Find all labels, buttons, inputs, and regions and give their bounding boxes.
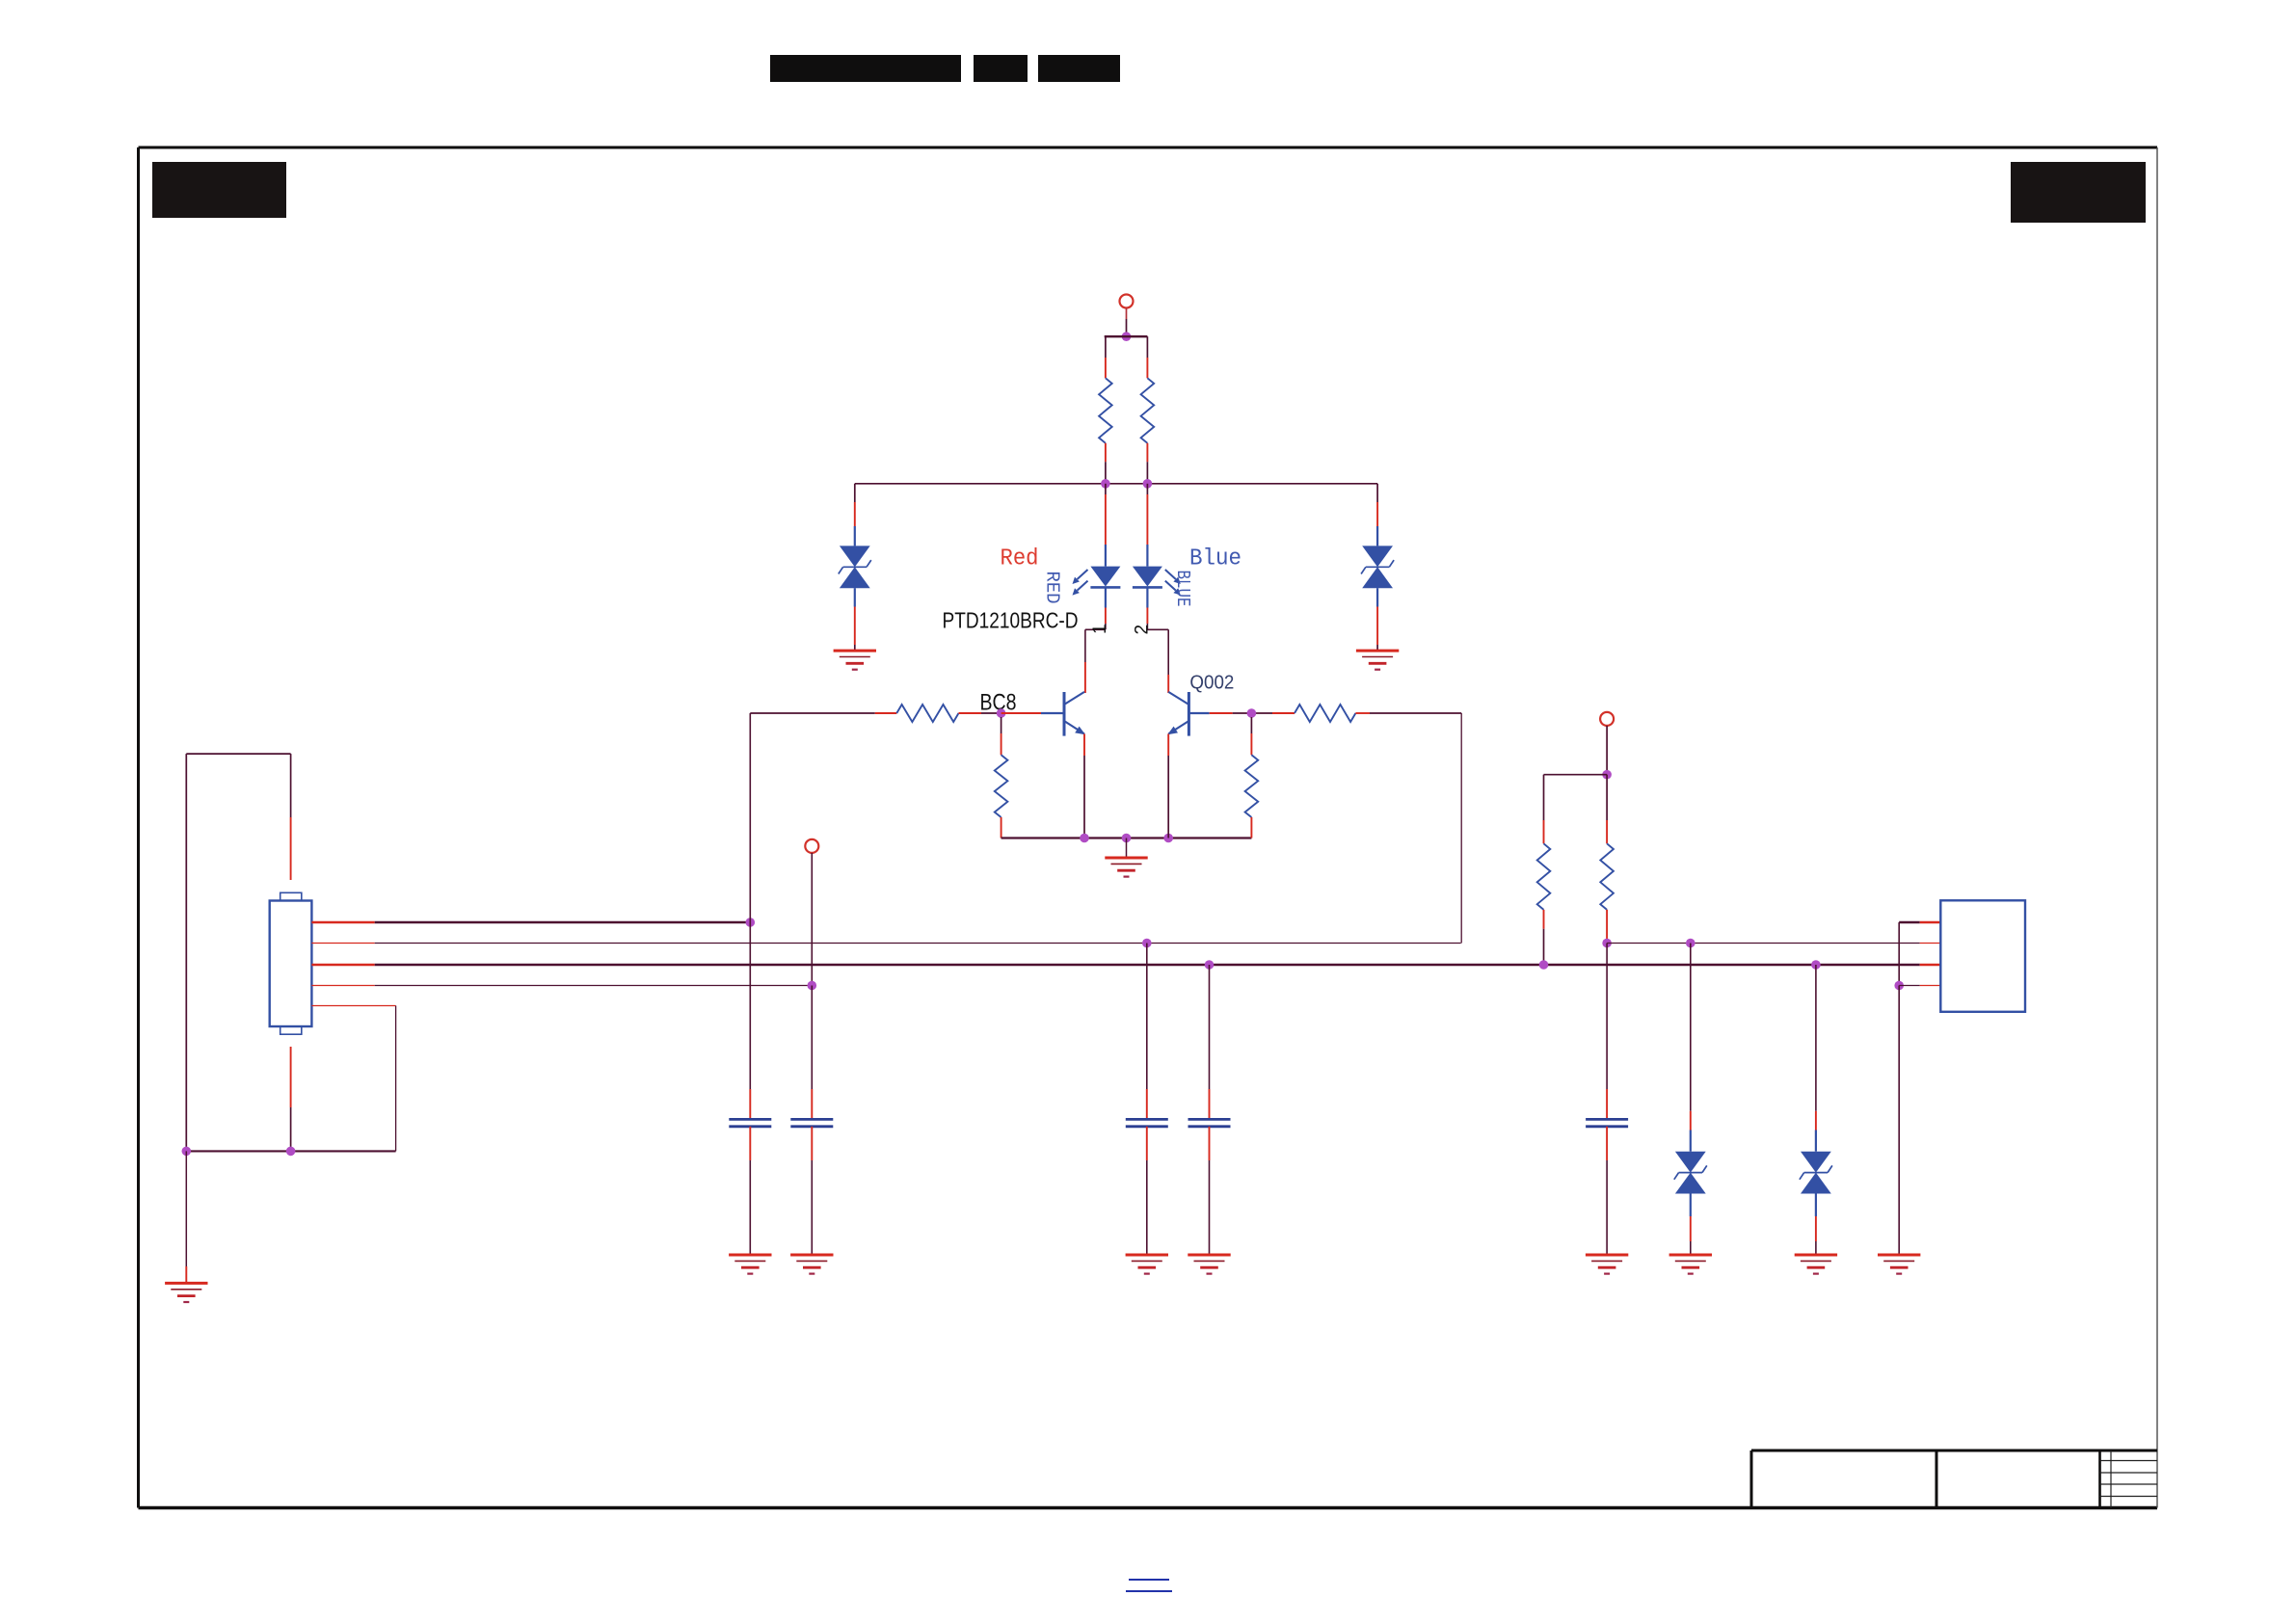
ground C3 — [1126, 1255, 1168, 1274]
wire D3 bottom lead — [1690, 1194, 1692, 1256]
node W1 end — [746, 918, 756, 927]
resistor R2 — [1141, 378, 1155, 443]
sheet frame border — [139, 147, 2158, 1508]
label BC8 — [980, 690, 1017, 716]
title block — [1751, 1450, 2157, 1508]
wire Q002 emitter lead — [1167, 734, 1169, 838]
wire CN1 bottom pin — [290, 1047, 292, 1151]
ground CN2 — [1878, 1255, 1920, 1274]
wire W4 — [311, 985, 812, 987]
wire top split bar — [1106, 335, 1148, 337]
wire R3 to node — [959, 712, 1001, 714]
wire C4 top lead — [1209, 965, 1211, 1119]
node Q2 emitter — [1163, 834, 1173, 843]
wire CN1 gnd stem — [185, 1151, 187, 1283]
wire LED1 cathode lead — [1085, 587, 1106, 693]
capacitor C1 — [729, 1119, 771, 1126]
node R8 W2b — [1602, 939, 1612, 948]
ground C1 — [729, 1255, 771, 1274]
node R2 rail junction — [1143, 479, 1153, 489]
wire R7 bottom lead — [1543, 910, 1545, 965]
wire R4 bottom lead — [1001, 817, 1002, 838]
ground CN1 — [165, 1283, 207, 1302]
redaction box top-left — [152, 162, 286, 218]
node W2b D3 — [1686, 939, 1695, 948]
ground C5 — [1586, 1255, 1628, 1274]
node W3 C4 — [1205, 960, 1215, 970]
wire D1 bottom lead — [854, 588, 856, 651]
wire node to Q1 base — [1001, 712, 1064, 714]
node P3 split — [1602, 770, 1612, 780]
node junction top — [1122, 332, 1132, 341]
pin label 1 — [1090, 624, 1110, 634]
wire C3 top lead — [1146, 944, 1148, 1120]
wire D3 top lead — [1690, 944, 1692, 1152]
wire R4 top lead — [1001, 717, 1002, 755]
redaction bar 3 (title) — [1038, 55, 1120, 82]
label Blue — [1189, 546, 1241, 572]
svg-text:BLUE: BLUE — [1172, 571, 1193, 607]
ground emitter rail — [1105, 858, 1147, 877]
power terminal P1 — [1120, 295, 1134, 308]
resistor R5 — [1245, 755, 1259, 817]
wire C4 bottom lead — [1209, 1127, 1211, 1255]
wire CN1 loop — [186, 754, 290, 1151]
wire C2 top lead — [811, 986, 813, 1120]
terminal P2 — [805, 839, 818, 853]
node R5 top — [1247, 708, 1257, 718]
label Q002 — [1189, 673, 1234, 694]
svg-text:RED: RED — [1042, 572, 1063, 604]
resistor R6 (Q002 base) — [1295, 705, 1355, 722]
node W2 C3 — [1142, 939, 1152, 948]
node Q1 emitter — [1080, 834, 1089, 843]
resistor R3 (BC8 base) — [896, 705, 958, 722]
node W4 P2 — [808, 981, 817, 991]
node W4 CN2 — [1894, 981, 1904, 991]
label BLUE (rotated) — [1172, 571, 1193, 607]
wire emitter rail — [1001, 837, 1252, 838]
node W3 D4 — [1811, 960, 1821, 970]
wire P3 stem — [1606, 726, 1608, 775]
svg-text:Q002: Q002 — [1189, 673, 1234, 694]
tvs diode D2 — [1361, 545, 1394, 588]
wire Q1 emitter lead — [1083, 734, 1085, 838]
wire R2 bottom lead — [1146, 443, 1148, 484]
label Red — [1001, 546, 1039, 572]
resistor R4 — [995, 755, 1008, 817]
wire W2b — [1607, 943, 1940, 945]
wire Q002 base — [1188, 712, 1272, 714]
ground C4 — [1188, 1255, 1230, 1274]
wire C1 top lead — [749, 922, 751, 1119]
wire W2 — [311, 943, 1460, 945]
wire split bar R7 — [1544, 774, 1608, 776]
wire CN1 top pin — [290, 754, 292, 880]
svg-text:1: 1 — [1090, 624, 1110, 634]
wire R7 top lead — [1543, 775, 1545, 844]
label RED (rotated) — [1042, 572, 1063, 604]
resistor R1 — [1099, 378, 1112, 443]
wire gnd stem — [1126, 838, 1128, 859]
wire C5 top lead — [1606, 944, 1608, 1120]
svg-text:Blue: Blue — [1189, 546, 1241, 572]
wire D1 top lead — [854, 484, 856, 546]
wire CN2 pin1 — [1899, 922, 1940, 986]
wire LED2 anode lead — [1146, 484, 1148, 567]
wire R8 top lead — [1606, 775, 1608, 844]
wire P1 stem — [1126, 308, 1128, 337]
led LED1 (Red) — [1073, 567, 1121, 596]
transistor Q002 — [1167, 692, 1188, 736]
capacitor C5 — [1586, 1119, 1628, 1126]
wire D2 bottom lead — [1376, 588, 1378, 651]
wire gnd rail CN1 — [186, 1150, 395, 1152]
wire R1 top lead — [1105, 336, 1107, 378]
wire D4 top lead — [1815, 965, 1817, 1152]
wire D4 bottom lead — [1815, 1194, 1817, 1256]
wire R8 bottom lead — [1606, 910, 1608, 944]
pin label 2 — [1133, 625, 1153, 635]
connector CN2 — [1940, 900, 2025, 1012]
footer page mark — [1126, 1580, 1172, 1591]
wire W5 — [311, 1006, 395, 1152]
node rail CN1 pin — [286, 1147, 296, 1157]
wire TVS rail — [855, 483, 1377, 485]
resistor R8 — [1600, 843, 1614, 910]
svg-text:Red: Red — [1001, 546, 1039, 572]
wire W3 — [311, 964, 1940, 966]
wire R6 left lead — [1272, 712, 1295, 714]
wire C2 bottom lead — [811, 1127, 813, 1255]
wire D2 top lead — [1376, 484, 1378, 546]
wire LED2 cathode lead — [1147, 587, 1168, 693]
wire C3 bottom lead — [1146, 1127, 1148, 1255]
node rail left — [182, 1147, 192, 1157]
tvs diode D4 — [1800, 1152, 1832, 1194]
ground D4 — [1795, 1255, 1837, 1274]
wire R5 bottom lead — [1250, 817, 1252, 838]
wire R1 bottom lead — [1105, 443, 1107, 484]
wire W1 — [311, 921, 750, 923]
svg-text:PTD1210BRC-D: PTD1210BRC-D — [943, 608, 1079, 633]
led LED2 (Blue) — [1133, 567, 1181, 596]
ground D2 — [1356, 651, 1399, 670]
redaction bar 1 (title) — [770, 55, 961, 82]
terminal P3 — [1600, 712, 1614, 726]
wire W4 to CN2 — [1899, 985, 1940, 987]
ground D3 — [1669, 1255, 1712, 1274]
node R7 W3 — [1539, 960, 1549, 970]
redaction bar 2 (title) — [974, 55, 1028, 82]
tvs diode D3 — [1674, 1152, 1707, 1194]
wire C1 bottom lead — [749, 1127, 751, 1255]
node BC8 — [997, 708, 1006, 718]
transistor Q1 — [1064, 692, 1085, 736]
tvs diode D1 — [839, 545, 871, 588]
wire CN2 gnd drop — [1898, 986, 1900, 1256]
wire LED1 anode lead — [1105, 484, 1107, 567]
wire C5 bottom lead — [1606, 1127, 1608, 1255]
wire P2 stem — [811, 853, 813, 986]
wire base rail left — [750, 712, 896, 714]
capacitor C2 — [790, 1119, 833, 1126]
label PTD1210BRC-D — [943, 608, 1079, 633]
resistor R7 — [1537, 843, 1551, 910]
capacitor C3 — [1126, 1119, 1168, 1126]
connector CN1 — [270, 892, 312, 1034]
wire BC8 drop — [749, 713, 751, 922]
wire R2 top lead — [1146, 336, 1148, 378]
ground D1 — [834, 651, 876, 670]
node gnd stem — [1122, 834, 1132, 843]
capacitor C4 — [1188, 1119, 1231, 1126]
ground C2 — [790, 1255, 833, 1274]
wire R6 to wire2 — [1355, 713, 1461, 944]
redaction box top-right — [2011, 162, 2146, 223]
svg-text:2: 2 — [1133, 625, 1153, 635]
wire R5 top lead — [1250, 717, 1252, 755]
node R1 rail junction — [1101, 479, 1110, 489]
